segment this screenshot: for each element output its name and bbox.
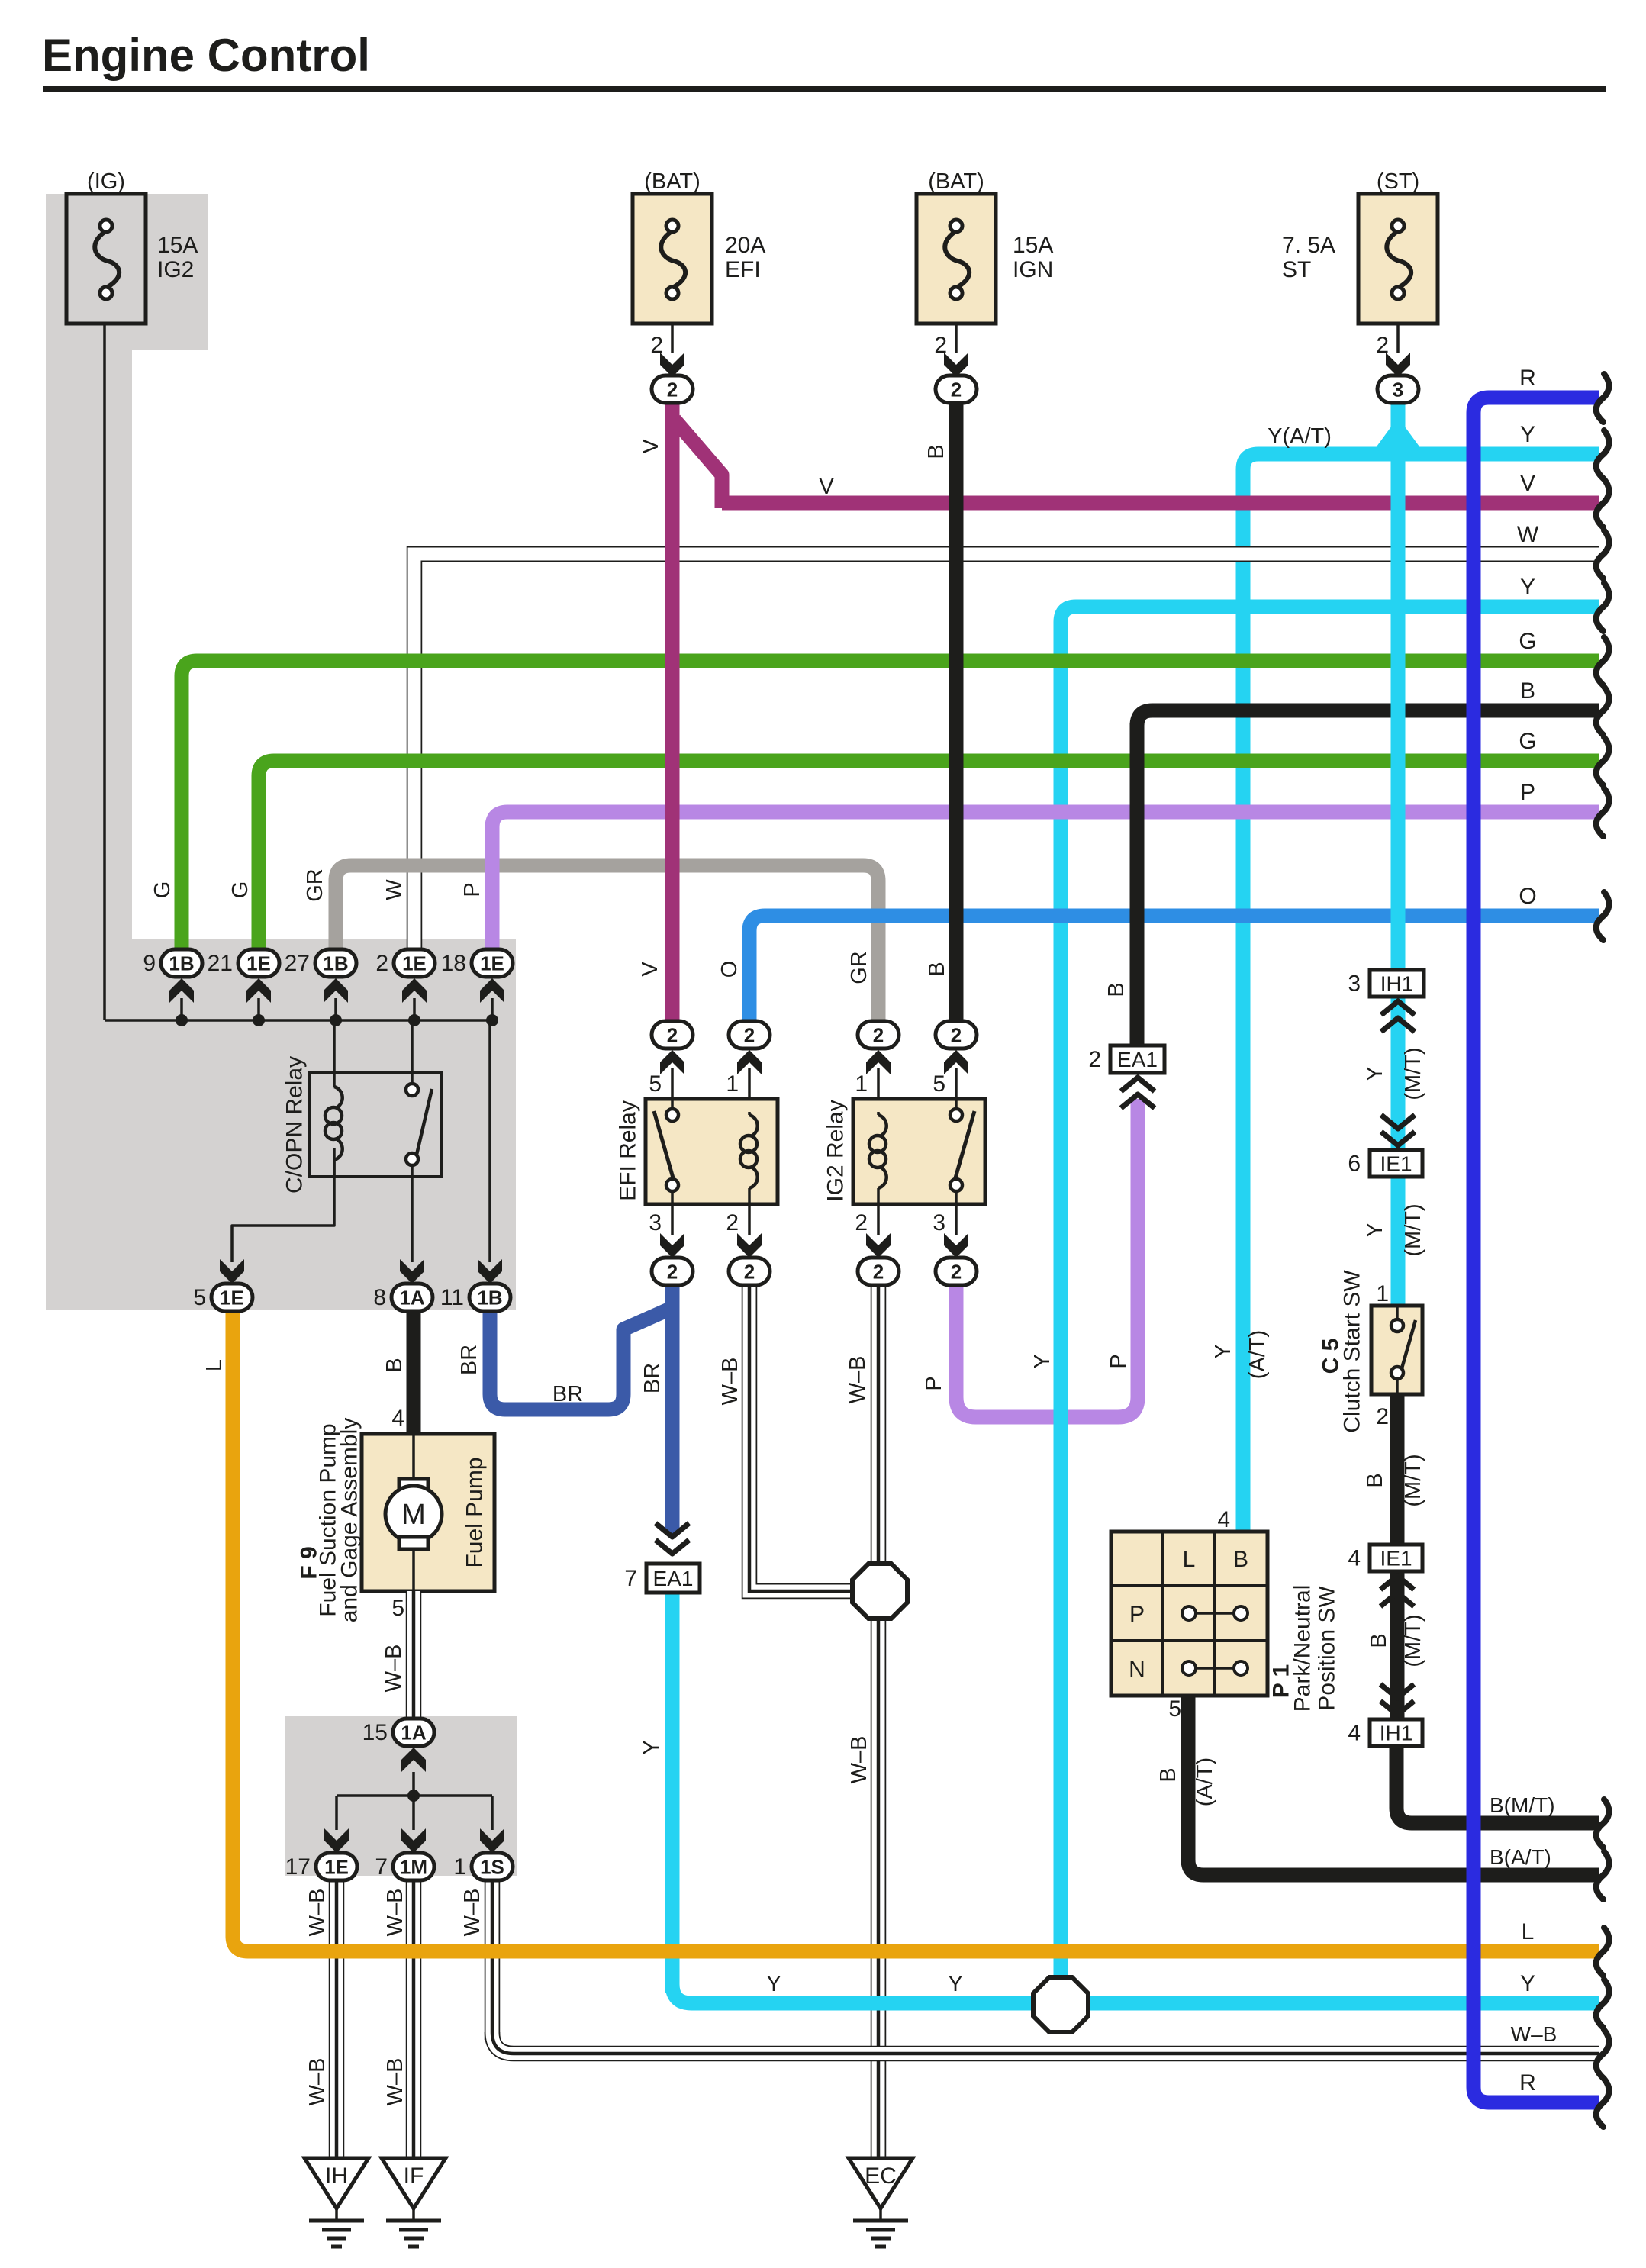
relay pin 2 lower lead at x=1151 (855, 1204, 878, 1235)
double chevron below IH1-3 (1381, 1001, 1415, 1032)
svg-text:4: 4 (391, 1406, 404, 1431)
svg-text:1E: 1E (220, 1287, 244, 1310)
label W-B pump (382, 1645, 406, 1693)
continuation squiggle y=2625 (1596, 1980, 1609, 2028)
label B(A/T) right edge (1490, 1845, 1551, 1869)
wire stub to connector 1E-17 (335, 1796, 338, 1830)
label G right edge y=997 (1519, 729, 1536, 754)
continuation squiggle y=2389 (1596, 1799, 1609, 1848)
relay pin 2 lower lead at x=982 (726, 1204, 749, 1235)
svg-text:Y: Y (1211, 1344, 1235, 1358)
pin 2 lead below fuse at x=1832 (1376, 324, 1398, 358)
svg-text:Y: Y (639, 1740, 664, 1754)
continuation squiggle y=1064 (1596, 788, 1609, 836)
connector oval 2 above relay x=881 (652, 1021, 693, 1049)
svg-text:W–B: W–B (460, 1889, 485, 1937)
relay pin 5 lead at x=1253 (933, 1068, 956, 1099)
svg-text:M: M (401, 1499, 426, 1531)
junction dot 1E-2 (408, 1014, 420, 1026)
wire stub to connector 1E-18 (491, 998, 494, 1020)
svg-text:B: B (1156, 1767, 1181, 1782)
continuation squiggle y=2457 (1596, 1851, 1609, 1899)
svg-text:Y: Y (1030, 1354, 1055, 1368)
label B MT upper (1363, 1454, 1425, 1506)
connector 1B pin 9 (143, 949, 202, 977)
svg-text:1B: 1B (169, 952, 194, 975)
noise filter octagon upper (852, 1564, 907, 1619)
svg-text:(M/T): (M/T) (1401, 1454, 1425, 1506)
svg-text:1M: 1M (400, 1856, 427, 1879)
svg-text:IG2 Relay: IG2 Relay (823, 1100, 849, 1201)
relay pin 1 lead at x=1151 (855, 1068, 878, 1099)
wire Y IE1-6 to clutch start switch (1391, 1177, 1406, 1306)
svg-text:2: 2 (1088, 1047, 1101, 1072)
label V on EFI fuse wire (639, 439, 663, 454)
label Y right edge y=2625 (1520, 1971, 1535, 1996)
arrow into connector oval 3 (1386, 353, 1410, 377)
arrow into oval 2 below relay x=1253 (944, 1233, 968, 1258)
wire B horizontal to EA1-2 drop (1137, 710, 1599, 731)
label W at 1E-2 (382, 879, 407, 900)
ground bus wire (337, 1794, 492, 1797)
label W-B right edge (1511, 2022, 1557, 2046)
svg-text:IE1: IE1 (1380, 1152, 1412, 1176)
svg-text:Position SW: Position SW (1315, 1586, 1340, 1711)
wire Y bottom horizontal (672, 1984, 1599, 2003)
junction dot 1E-18 (486, 1014, 498, 1026)
label Y MT upper (1363, 1047, 1425, 1100)
svg-text:ST: ST (1282, 257, 1311, 282)
svg-text:1A: 1A (401, 1722, 426, 1744)
wire stub to connector 1E-21 (257, 998, 260, 1020)
continuation squiggle y=659 (1596, 479, 1609, 527)
svg-text:V: V (819, 475, 834, 499)
wire P from IG2 relay pin 3 to EA1-2 (956, 1099, 1138, 1417)
connector 1B pin 27 (285, 949, 356, 977)
label P right edge y=1064 (1520, 780, 1535, 805)
svg-text:1A: 1A (399, 1287, 424, 1310)
label W-B at 1S-1 (460, 1889, 485, 1937)
svg-text:17: 17 (285, 1854, 311, 1880)
relay pin 3 lower lead at x=881 (649, 1204, 672, 1235)
svg-text:3: 3 (933, 1210, 945, 1235)
svg-text:(ST): (ST) (1377, 169, 1419, 194)
switch P1 park/neutral position (1111, 1507, 1340, 1722)
svg-text:Park/Neutral: Park/Neutral (1290, 1585, 1316, 1712)
svg-text:B: B (1233, 1547, 1248, 1572)
svg-text:2: 2 (855, 1210, 868, 1235)
label BR vertical (640, 1363, 665, 1393)
label W-B to IF (383, 2058, 407, 2106)
wire B vertical to EA1-2 (1130, 723, 1145, 1045)
arrow into connector 1S-1 (480, 1828, 504, 1853)
wire B from connector 1A-8 to fuel pump (407, 1310, 421, 1434)
wire W-B from connector 1M-7 to ground IF (406, 1880, 422, 2158)
wire W-B from connector 1S-1 down (485, 1880, 501, 2040)
wire GR between 1B-27 and IG2 relay (336, 865, 878, 1035)
arrow into connector 1E-18 (480, 978, 504, 1003)
continuation squiggle y=726 (1596, 530, 1609, 578)
svg-text:W–B: W–B (382, 1645, 406, 1693)
svg-text:IGN: IGN (1013, 257, 1053, 282)
svg-text:(M/T): (M/T) (1401, 1047, 1425, 1100)
svg-text:2: 2 (726, 1210, 739, 1235)
wire stub to connector 1M-7 (412, 1796, 415, 1830)
ground IF (382, 2158, 446, 2247)
svg-text:V: V (1520, 471, 1535, 496)
wire G to connector 1B-9 (182, 661, 1599, 951)
svg-text:7: 7 (624, 1566, 637, 1591)
svg-text:11: 11 (440, 1285, 464, 1310)
svg-text:Fuel Pump: Fuel Pump (462, 1457, 488, 1567)
svg-text:1: 1 (1376, 1281, 1389, 1306)
svg-text:N: N (1129, 1657, 1145, 1682)
double chevron into EA1-7 (656, 1523, 689, 1554)
connector 1B pin 11 (440, 1284, 511, 1311)
relay IG2 (823, 1099, 986, 1204)
label GR at IG2 relay (847, 951, 871, 984)
wire BR branch from connector 1B-11 (490, 1310, 668, 1409)
wire B(M/T) IE1-4 to IH1-4 (1390, 1571, 1405, 1719)
svg-text:W–B: W–B (305, 1889, 330, 1937)
svg-text:GR: GR (847, 951, 871, 984)
connector EA1 pin 7 (624, 1564, 700, 1593)
svg-text:IH: IH (325, 2163, 348, 2189)
wire stub to connector 1E-2 (413, 998, 416, 1020)
wire Y horizontal upper (1061, 607, 1599, 637)
wire W-B bottom horizontal (492, 2032, 1599, 2054)
connector 1E pin 18 (441, 949, 513, 977)
svg-text:2: 2 (744, 1024, 755, 1047)
svg-text:15A: 15A (1013, 233, 1053, 258)
label B wire pump (382, 1358, 407, 1372)
svg-text:2: 2 (873, 1024, 884, 1047)
arrow into connector 1E-2 (402, 978, 427, 1003)
connector 1E pin 2 (375, 949, 435, 977)
relay EFI (616, 1099, 778, 1204)
gray harness shading around IG fuse (46, 194, 208, 350)
connector oval 2 (652, 375, 693, 403)
pin 2 lead below fuse at x=1253 (934, 324, 956, 358)
connector oval 2 above relay x=1151 (858, 1021, 899, 1049)
arrow into connector 1B-11 (478, 1259, 502, 1284)
wire W-B pump to connector 1A-15 (406, 1591, 422, 1719)
svg-text:W–B: W–B (847, 1736, 871, 1784)
label B MT lower (1367, 1614, 1425, 1667)
svg-text:B(M/T): B(M/T) (1490, 1793, 1555, 1817)
label V at EFI relay (638, 962, 662, 977)
svg-text:W: W (1517, 522, 1539, 547)
junction dot 1B-27 (330, 1014, 342, 1026)
svg-text:Y: Y (1520, 575, 1535, 600)
fuel pump F9 (297, 1406, 495, 1622)
svg-text:5: 5 (193, 1285, 206, 1310)
svg-text:3: 3 (1393, 379, 1403, 401)
svg-text:(M/T): (M/T) (1401, 1203, 1425, 1256)
svg-text:1: 1 (855, 1071, 868, 1097)
label G at 1E-21 (228, 881, 253, 899)
svg-text:G: G (228, 881, 253, 899)
arrow into oval 2 above relay x=1151 (866, 1050, 891, 1074)
svg-text:P: P (1129, 1602, 1145, 1627)
wire W-B from connector 1E-17 to ground IH (329, 1880, 345, 2158)
arrow into connector 1B-27 (324, 978, 348, 1003)
svg-text:15A: 15A (157, 233, 198, 258)
svg-text:L: L (1522, 1919, 1535, 1944)
wire stub to connector 1B-9 (180, 998, 183, 1020)
svg-text:2: 2 (951, 379, 962, 401)
connector oval 2 above relay x=982 (729, 1021, 770, 1049)
svg-text:Y: Y (1363, 1223, 1387, 1237)
svg-text:(IG): (IG) (87, 169, 125, 194)
label W-B at 1E-17 (305, 1889, 330, 1937)
wire W-B from IG2 relay pin 2 to ground EC (871, 1285, 887, 2158)
wire stub to connector 1S-1 (491, 1796, 494, 1830)
fuse 15A IG2 (IG) (66, 169, 198, 324)
svg-text:V: V (638, 962, 662, 977)
svg-text:5: 5 (933, 1071, 945, 1097)
arrow into connector 1E-5 (220, 1259, 244, 1284)
switch C5 clutch start (1319, 1270, 1423, 1433)
svg-text:Y: Y (1520, 1971, 1535, 1996)
svg-text:B: B (924, 444, 949, 459)
wire C/OPN relay coil feed (333, 1020, 336, 1084)
svg-text:2: 2 (375, 951, 388, 976)
svg-text:B: B (1367, 1633, 1391, 1648)
relay pin 3 lower lead at x=1253 (933, 1204, 956, 1235)
svg-text:BR: BR (552, 1382, 583, 1406)
label W-B to IH (305, 2058, 330, 2106)
connector oval 2 above relay x=1253 (936, 1021, 977, 1049)
continuation squiggle y=595 (1596, 430, 1609, 478)
svg-text:W–B: W–B (718, 1358, 742, 1406)
continuation squiggle y=2691 (1596, 2030, 1609, 2078)
svg-text:P: P (1520, 780, 1535, 805)
svg-text:1: 1 (726, 1071, 739, 1097)
svg-text:2: 2 (951, 1261, 962, 1284)
junction dot 1E-21 (253, 1014, 265, 1026)
svg-text:4: 4 (1348, 1721, 1361, 1746)
continuation squiggle y=2557 (1596, 1928, 1609, 1976)
junction dot 1B-9 (176, 1014, 188, 1026)
arrow into oval 2 below relay x=1151 (866, 1233, 891, 1258)
svg-text:P: P (922, 1376, 946, 1390)
svg-text:(M/T): (M/T) (1401, 1614, 1425, 1667)
svg-text:IH1: IH1 (1380, 1722, 1413, 1745)
continuation squiggle y=795 (1596, 583, 1609, 631)
fuse 15A IGN (BAT) (916, 169, 1053, 324)
svg-text:9: 9 (143, 951, 156, 976)
wire B(A/T) from P1 pin 5 to right edge (1188, 1696, 1599, 1875)
gray harness shading left band (46, 350, 132, 942)
label P at 1E-18 (460, 882, 485, 897)
wire W-B from EFI relay pin 2 to noise filter (749, 1285, 854, 1591)
connector 1E pin 5 (193, 1284, 253, 1311)
arrow into connector 1A-15 (401, 1748, 426, 1772)
svg-text:R: R (1519, 366, 1536, 391)
svg-text:5: 5 (1168, 1696, 1181, 1722)
label Y below EA1-7 (639, 1740, 664, 1754)
label O right edge y=1200 (1519, 884, 1536, 909)
connector 1A pin 15 (362, 1719, 434, 1746)
label Y mid vertical (1030, 1354, 1055, 1368)
label B to EA1-2 (1104, 982, 1129, 997)
svg-text:G: G (150, 881, 175, 899)
label P IG2 relay (922, 1376, 946, 1390)
connector oval 2 (936, 375, 977, 403)
svg-text:O: O (1519, 884, 1536, 909)
label L right edge y=2557 (1522, 1919, 1535, 1944)
svg-text:4: 4 (1217, 1507, 1230, 1532)
svg-text:1: 1 (453, 1854, 466, 1880)
svg-text:B: B (1104, 982, 1129, 997)
label G at 1B-9 (150, 881, 175, 899)
svg-text:R: R (1519, 2070, 1536, 2096)
label Y MT lower (1363, 1203, 1425, 1256)
svg-text:Y: Y (1363, 1066, 1387, 1081)
wire O to EFI relay pin 1 (749, 916, 1599, 1035)
wire G to connector 1E-21 (259, 761, 1599, 951)
wire Y vertical from EA1-7 (665, 1593, 680, 1993)
label B(M/T) right edge (1490, 1793, 1555, 1817)
svg-text:Y: Y (948, 1972, 962, 1996)
svg-text:1B: 1B (477, 1287, 502, 1310)
svg-text:EFI: EFI (725, 257, 761, 282)
svg-text:(A/T): (A/T) (1245, 1330, 1270, 1379)
label W-B IG2 relay (846, 1356, 870, 1404)
svg-text:and Gage Assembly: and Gage Assembly (337, 1418, 362, 1623)
svg-text:Engine Control: Engine Control (42, 30, 370, 81)
ground EC (849, 2158, 913, 2247)
svg-text:EFI Relay: EFI Relay (616, 1100, 641, 1201)
svg-text:EA1: EA1 (653, 1567, 694, 1590)
svg-text:(BAT): (BAT) (928, 169, 984, 194)
label Y bottom left (766, 1972, 781, 1996)
svg-text:5: 5 (649, 1071, 662, 1097)
connector 1E pin 21 (208, 949, 279, 977)
pin 2 lead below fuse at x=881 (650, 324, 672, 358)
wire C/OPN relay switch feed (411, 1020, 414, 1087)
svg-text:BR: BR (640, 1363, 665, 1393)
svg-text:G: G (1519, 629, 1536, 654)
svg-text:B: B (1363, 1473, 1387, 1487)
label O at EFI relay (717, 961, 742, 978)
svg-text:1E: 1E (246, 952, 271, 975)
arrow into oval 2 above relay x=1253 (944, 1050, 968, 1074)
label W-B to EC (847, 1736, 871, 1784)
label R right edge y=521 (1519, 366, 1536, 391)
label BR horizontal (552, 1382, 583, 1406)
svg-text:2: 2 (873, 1261, 884, 1284)
continuation squiggle y=2755 (1596, 2079, 1609, 2127)
relay C/OPN (282, 1056, 442, 1194)
svg-text:(A/T): (A/T) (1193, 1757, 1217, 1806)
svg-text:5: 5 (391, 1596, 404, 1621)
noise filter octagon lower (1033, 1977, 1088, 2032)
junction dot ground bus (407, 1790, 420, 1802)
svg-text:IE1: IE1 (1380, 1547, 1412, 1571)
fuse 20A EFI (BAT) (633, 169, 765, 324)
connector 1M pin 7 (375, 1853, 434, 1880)
label V right edge y=659 (1520, 471, 1535, 496)
svg-text:21: 21 (208, 951, 233, 976)
arrow into connector 1E-21 (246, 978, 271, 1003)
wire Y from starter fuse to right edge (1243, 454, 1599, 490)
label W right edge y=726 (1517, 522, 1539, 547)
svg-text:W: W (382, 879, 407, 900)
svg-text:EA1: EA1 (1117, 1048, 1158, 1071)
label B on IGN fuse wire (924, 444, 949, 459)
wire V vertical from EFI fuse (665, 403, 680, 1035)
wire 1A-15 to ground bus (412, 1772, 415, 1796)
gray harness shading junction block (46, 939, 516, 1310)
svg-text:7: 7 (375, 1854, 388, 1880)
wire Y fork right shoulder (1398, 430, 1415, 453)
relay pin 1 lead at x=982 (726, 1068, 749, 1099)
wire C/OPN switch to connector 1A-8 (411, 1162, 414, 1262)
arrow into connector oval 2 (660, 353, 684, 377)
svg-text:2: 2 (667, 1024, 678, 1047)
wire Y vertical from connector turn to octagon (1054, 633, 1068, 1979)
svg-text:2: 2 (1376, 1404, 1389, 1429)
wire Y IH1-3 to IE1-6 (1391, 997, 1406, 1150)
svg-text:B: B (382, 1358, 407, 1372)
svg-text:4: 4 (1348, 1546, 1361, 1571)
svg-text:O: O (717, 961, 742, 978)
connector oval 2 below relay x=982 (729, 1258, 770, 1285)
wire bus to connector 1B-11 (488, 1020, 491, 1262)
label Y right edge y=795 (1520, 575, 1535, 600)
label BR at 1B-11 (457, 1345, 482, 1375)
arrow into connector oval 2 (944, 353, 968, 377)
arrow into oval 2 above relay x=982 (737, 1050, 762, 1074)
svg-text:W–B: W–B (846, 1356, 870, 1404)
svg-text:6: 6 (1348, 1152, 1361, 1177)
junction bus wire (105, 1019, 492, 1022)
svg-text:8: 8 (373, 1285, 386, 1310)
label B AT (1156, 1757, 1217, 1806)
svg-text:Y: Y (1520, 422, 1535, 447)
continuation squiggle y=866 (1596, 637, 1609, 685)
connector oval 2 below relay x=1151 (858, 1258, 899, 1285)
svg-text:B: B (925, 962, 949, 976)
label Y(A/T) top (1268, 424, 1332, 449)
label P to EA1-2 (1106, 1354, 1131, 1368)
svg-text:IG2: IG2 (157, 257, 194, 282)
label V horizontal (819, 475, 834, 499)
svg-text:W–B: W–B (1511, 2022, 1557, 2046)
svg-text:V: V (639, 439, 663, 454)
connector 1S pin 1 (453, 1853, 513, 1880)
svg-text:18: 18 (441, 951, 466, 976)
wire W horizontal and down to connector 1E-2 (414, 554, 1599, 951)
connector 1E pin 17 (285, 1853, 357, 1880)
connector oval 2 below relay x=1253 (936, 1258, 977, 1285)
wire V horizontal (722, 496, 1599, 511)
continuation squiggle y=1200 (1596, 892, 1609, 940)
svg-text:IF: IF (404, 2163, 424, 2189)
wire B from IGN fuse to IG2 relay pin 5 (949, 403, 964, 1035)
arrow into connector 1M-7 (401, 1828, 426, 1853)
double chevron above IH1-4 (1380, 1684, 1414, 1715)
relay pin 5 lead at x=881 (649, 1068, 672, 1099)
wire BR from EFI relay pin 3 to EA1-7 (665, 1285, 680, 1535)
svg-text:B: B (1520, 678, 1535, 704)
svg-text:P: P (460, 882, 485, 897)
connector oval 2 below relay x=881 (652, 1258, 693, 1285)
svg-text:3: 3 (1348, 971, 1361, 997)
wire C/OPN coil to connector 1E-5 (232, 1148, 334, 1262)
